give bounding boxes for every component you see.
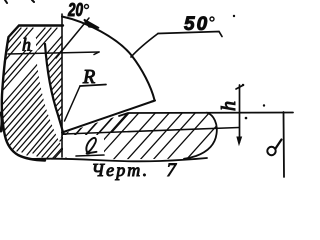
groove profile big arc: [62, 17, 155, 102]
scan speck top edge left: [5, 0, 7, 3]
speck near h arrow: [242, 84, 244, 86]
50 deg leader line: [131, 34, 158, 58]
scan speck top edge mid: [32, 0, 34, 2]
stray hatch line crossing extension: [56, 18, 89, 58]
svg-text:7: 7: [167, 160, 178, 181]
fillet curve R (inner curve through wall): [45, 44, 65, 138]
l underline: [76, 155, 104, 156]
label l (script ell): [86, 138, 96, 154]
h dimension line (left): [8, 52, 99, 54]
vertical line x=62 (extension / wall edge): [61, 14, 63, 157]
speck right of band: [263, 104, 265, 106]
R leader to fillet center: [65, 86, 81, 121]
weld lobe outline (right end of band): [184, 113, 217, 159]
wall outline (left hatched part): [2, 26, 63, 161]
label h (left): [21, 38, 36, 50]
white gap in band under l label: [63, 135, 104, 157]
wall hatching: [0, 28, 62, 159]
svg-text:Черт.: Черт.: [92, 160, 150, 180]
50 deg underline: [158, 32, 222, 37]
long surface line LH1: [119, 113, 293, 117]
bottom edge line (long wavy): [30, 158, 207, 161]
svg-text:20: 20: [67, 0, 83, 20]
svg-text:h: h: [22, 35, 31, 55]
line2 (upper surface of band): [64, 128, 239, 135]
tick at top of h extension: [236, 85, 244, 89]
white band left of fillet curve: [41, 54, 65, 142]
svg-text:50: 50: [184, 14, 209, 35]
svg-text:h: h: [218, 101, 240, 111]
d extension line (right): [283, 112, 286, 177]
label h (right, rotated): [218, 101, 240, 111]
scan blob left margin: [1, 113, 2, 131]
label d stem: [276, 140, 282, 149]
label d (rotated): bowl: [267, 147, 275, 155]
band hatching (bottom part): [40, 103, 220, 169]
runout line 20deg from vertex: [62, 101, 155, 133]
h dimension (right): extension vertical with down arrow: [239, 85, 241, 142]
arrowhead on arc: [84, 20, 99, 29]
